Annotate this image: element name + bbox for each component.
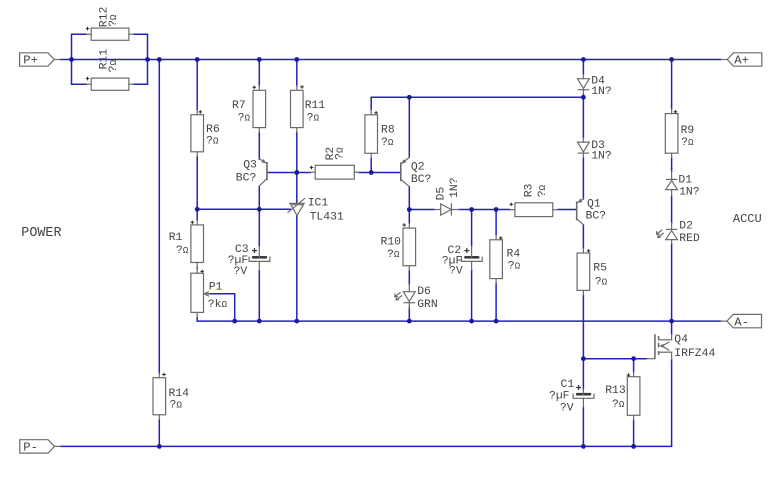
wire: C3 to A- rail [258,270,260,321]
wire: P1 bottom bend to A- rail [196,317,198,321]
svg-text:A+: A+ [734,54,749,68]
junction: Q2 collector-R10 node [407,207,412,212]
resistor R11 (parallel) [86,49,134,91]
resistor R12 [86,7,134,41]
svg-text:C1: C1 [561,379,575,391]
svg-text:Q4: Q4 [674,334,688,346]
wire: R11 row left segment [72,83,87,85]
svg-text:A-: A- [734,315,749,329]
svg-text:R4: R4 [507,249,521,261]
resistor R13 [605,372,640,420]
svg-text:?kΩ: ?kΩ [208,299,228,311]
wire: R12 row left segment [72,33,87,35]
wire: P1 wiper horizontal [208,293,234,295]
junction: left drop on top rail [157,57,162,62]
supply tag A+ [721,53,762,68]
svg-text:R3: R3 [523,183,535,197]
potentiometer P1 [191,269,228,317]
svg-text:R11: R11 [305,100,326,112]
wire: top rail to R11 [296,60,298,86]
svg-text:D1: D1 [678,174,692,186]
svg-text:BC?: BC? [411,174,432,186]
diode D4 [578,75,612,99]
junction: IC1 anode on A- rail [294,319,299,324]
junction: C1 on P- rail [581,444,586,449]
wire: Q4 source drop to P- rail (x=671.6) [671,360,673,447]
svg-text:?V: ?V [449,266,463,278]
diode D5 [434,177,461,215]
capacitor C1 [549,379,594,415]
wire: gate row (y=358.7) [583,358,646,360]
svg-text:R13: R13 [605,385,626,397]
svg-text:?Ω: ?Ω [387,249,400,261]
wire: R2 to R8 junction segment [359,172,371,174]
svg-text:?V: ?V [560,403,574,415]
svg-text:BC?: BC? [586,211,607,223]
shunt regulator IC1 TL431 [288,197,344,223]
svg-text:?Ω: ?Ω [595,276,608,288]
junction: C2 on D5 row [469,207,474,212]
junction: R13 on P- rail [631,444,636,449]
svg-text:POWER: POWER [21,226,61,241]
transistor Q2 [401,157,432,186]
resistor R3 [510,183,558,216]
wire: parallel pair right vertical (x=147.5) [147,34,149,84]
junction: D2-Q4 drain on A- rail [669,319,674,324]
wire: D5 row to R4 [495,210,497,236]
capacitor C2 [442,245,482,278]
wire: D2 to A- rail [671,244,673,321]
wire: R4 to A- rail [495,283,497,321]
junction: parallel pair right on top rail [145,57,150,62]
svg-text:R7: R7 [232,100,246,112]
wire: top rail to D4 [582,60,584,75]
svg-text:?Ω: ?Ω [206,135,219,147]
wire: R13 to P- rail [633,420,635,447]
svg-text:R9: R9 [681,125,695,137]
svg-text:Q2: Q2 [411,162,425,174]
svg-text:GRN: GRN [417,299,438,311]
diode D2 (red LED) [657,221,700,245]
transistor Q1 [577,199,606,225]
svg-text:?µF: ?µF [549,390,570,402]
wire: bottom P- rail (y=446.4) [60,445,671,447]
svg-text:RED: RED [679,233,700,245]
svg-text:D2: D2 [679,221,693,233]
wire: Q3 base row (y=172.5) [268,172,310,174]
wire: R10 to D6 [408,270,410,284]
junction: Q3 collector-C3 node [257,207,262,212]
svg-text:Q3: Q3 [243,160,257,172]
svg-text:TL431: TL431 [310,211,344,223]
wire: top rail to R7 [258,60,260,86]
svg-text:D5: D5 [436,187,448,201]
wire: R8 junction to Q2 base [371,172,400,174]
wire: C1 to P- rail [582,407,584,446]
wire: P1 wiper drop to A- rail [234,294,236,321]
wire: Q2 collector junction to R10 [408,210,410,224]
resistor R11 (vertical) [291,85,326,132]
junction: R4 on A- rail [494,319,499,324]
svg-text:D6: D6 [417,286,431,298]
wire: P+ node vertical (x=71.5) [71,34,73,84]
wire: D3 to Q1 emitter [582,157,584,199]
wire: A- mid rail left segment (y=321.1) [197,320,721,322]
wire: control rail junction to R1 [196,209,198,220]
svg-text:?Ω: ?Ω [238,113,251,125]
wire: gate node to C1 [582,359,584,390]
resistor R1 [169,220,204,267]
svg-text:R6: R6 [206,124,220,136]
resistor R6 [191,110,220,156]
junction: C2 on A- rail [469,319,474,324]
junction: R11 on top rail [294,57,299,62]
diode D3 [578,138,612,163]
svg-text:?Ω: ?Ω [170,400,183,412]
resistor R7 [232,86,266,133]
wire: y97 rail to Q2 emitter [408,97,410,157]
svg-text:?Ω: ?Ω [381,137,394,149]
junction: R8 bottom on base row [369,170,374,175]
junction: D4 on top rail [581,57,586,62]
wire: D4 to y97 rail [582,94,584,97]
svg-text:P+: P+ [23,54,38,68]
supply tag P+ [20,53,61,68]
resistor R5 [577,248,608,295]
wire: R7 to Q3 emitter [258,132,260,159]
svg-text:?Ω: ?Ω [176,245,189,257]
net label POWER [21,226,61,241]
svg-text:?Ω: ?Ω [334,147,346,160]
capacitor C3 [228,244,270,278]
wire: top rail to R6 [196,60,198,111]
svg-text:1N?: 1N? [449,177,461,198]
wire: D5 row left segment [409,209,434,211]
wire: A- junction down to Q4 drain [671,321,673,334]
wire: R5 to gate node (crosses A- rail) [582,295,584,359]
svg-text:R8: R8 [381,124,395,136]
svg-text:?Ω: ?Ω [681,137,694,149]
wire: top supply rail P+ to A+ (y=59.5) [60,59,721,61]
wire: Q2 collector to D5 row [408,187,410,210]
junction: R6 on top rail [195,57,200,62]
svg-text:IC1: IC1 [308,197,329,209]
wire: C2 to A- rail [471,270,473,321]
wire: y97 rail to D3 [582,97,584,138]
resistor R4 [490,235,521,283]
junction: D6 on A- rail [407,319,412,324]
svg-text:R14: R14 [169,388,190,400]
svg-text:?Ω: ?Ω [612,399,625,411]
wire: R9 to D1 [671,158,673,172]
svg-text:IRFZ44: IRFZ44 [674,348,715,360]
wire: left control rail (y=209.3) [197,208,290,210]
wire: control rail to C3 [258,209,260,246]
svg-text:Q1: Q1 [587,199,601,211]
wire: R6 to left control rail [196,156,198,209]
resistor R14 [153,373,189,420]
junction: Q2 emitter on y97 rail [407,95,412,100]
svg-text:1N?: 1N? [591,86,612,98]
junction: R7 on top rail [257,57,262,62]
junction: C3 on A- rail [257,319,262,324]
svg-text:R5: R5 [593,262,607,274]
wire: Q1 collector to R5 [582,225,584,249]
svg-text:1N?: 1N? [591,151,612,163]
wire: R8 bottom to base row [370,158,372,173]
resistor R2 [310,147,359,180]
junction: R6-R1 node [195,207,200,212]
wire: gate row to R13 [633,359,635,372]
diode D1 [666,172,700,199]
junction: R13 on gate row [631,356,636,361]
net label ACCU [733,212,762,226]
svg-text:1N?: 1N? [679,187,700,199]
junction: P+ node [69,57,74,62]
wire: R11 to Q3 base row [296,132,298,172]
svg-text:P-: P- [23,441,38,455]
MOSFET Q4 [647,334,716,360]
wire: R3 to Q1 base [557,209,576,211]
svg-text:?Ω: ?Ω [537,184,549,197]
wire: R11 row right segment [134,83,148,85]
wire: D6 to A- rail [408,307,410,321]
svg-text:?V: ?V [234,266,248,278]
wire: R14 to P- rail [158,419,160,446]
wire: y97 rail R8 to D4 (y=97.3) [371,96,583,98]
svg-text:R1: R1 [169,232,183,244]
wire: top rail to R9 [671,60,673,110]
junction: C1 on gate row [581,356,586,361]
svg-text:R10: R10 [381,237,402,249]
svg-text:?Ω: ?Ω [108,14,120,27]
svg-text:?Ω: ?Ω [307,113,320,125]
wire: D5 row to C2 [471,210,473,247]
wire: Q3 collector to control rail [258,187,260,210]
resistor R9 [665,109,694,158]
wire: base row junction to IC1 cathode [296,173,298,204]
junction: R4 on D5 row [494,207,499,212]
wire: D5 row right segment [459,209,510,211]
wire: R1 to P1 [196,267,198,269]
svg-text:ACCU: ACCU [733,212,762,226]
svg-text:BC?: BC? [236,173,257,185]
supply tag P- [20,440,61,455]
supply tag A- [721,314,762,329]
resistor R10 [381,223,416,270]
junction: R14 on P- rail [157,444,162,449]
transistor Q3 [236,159,267,186]
svg-text:?Ω: ?Ω [508,260,521,272]
junction: R9 on top rail [669,57,674,62]
junction: D4-D3 node [581,95,586,100]
wire: IC1 anode to A- rail [296,216,298,322]
wire: D1 to D2 [671,196,673,223]
diode D6 (green LED) [395,284,438,311]
svg-text:P1: P1 [209,281,223,293]
junction: P1 wiper on A- rail [232,319,237,324]
wire: R8 top to y97 rail [370,97,372,110]
resistor R8 [365,110,395,158]
wire: left drop from top rail to R14 (x=159.3) [158,60,160,374]
junction: R11v-IC1 on base row [294,170,299,175]
wire: R12 row right segment [134,33,148,35]
svg-text:?Ω: ?Ω [108,59,120,72]
